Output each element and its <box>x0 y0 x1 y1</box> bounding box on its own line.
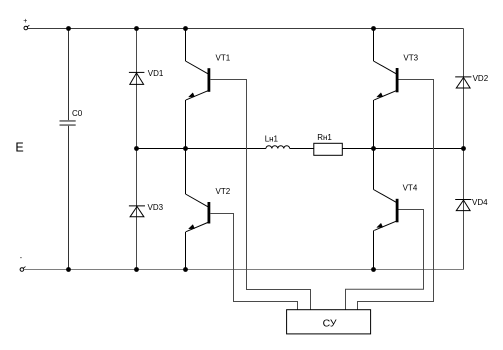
svg-text:+: + <box>23 18 27 25</box>
svg-text:E: E <box>15 141 23 155</box>
transistor VT2 <box>186 149 231 270</box>
wire VT1 base to control <box>210 80 310 310</box>
svg-text:VD4: VD4 <box>472 198 488 207</box>
diode VD4 <box>455 198 488 211</box>
terminal minus (bottom-left input terminal) <box>20 255 26 271</box>
svg-text:Rн1: Rн1 <box>317 133 332 142</box>
capacitor C0 <box>60 109 83 125</box>
node bottom capacitor junction <box>66 267 71 272</box>
node middle VT3-VT4 junction <box>371 146 376 151</box>
node middle VD1-VD3 junction <box>134 146 139 151</box>
svg-text:VD3: VD3 <box>148 203 164 212</box>
diode VD3 <box>129 203 164 217</box>
node bottom VT4 junction <box>371 267 376 272</box>
svg-text:VD2: VD2 <box>473 74 489 83</box>
control unit СУ <box>287 310 371 334</box>
transistor VT3 <box>374 29 419 149</box>
wire middle rail left (bridge midpoint to inductor) <box>137 148 266 150</box>
transistor VT4 <box>374 149 418 270</box>
svg-text:Lн1: Lн1 <box>265 135 279 144</box>
node top VD1 junction <box>134 26 139 31</box>
svg-text:VT4: VT4 <box>403 184 418 193</box>
svg-text:VT1: VT1 <box>216 53 231 62</box>
resistor Rн1 <box>314 133 343 155</box>
wire bottom rail <box>24 269 464 271</box>
node top VT1 junction <box>183 26 188 31</box>
svg-text:VT2: VT2 <box>216 187 231 196</box>
wire right rail (VD2/VD4 branch) <box>463 29 465 270</box>
wire capacitor branch upper <box>68 29 70 121</box>
svg-text:VD1: VD1 <box>148 69 164 78</box>
node middle VD2-VD4 junction <box>461 146 466 151</box>
svg-text:VT3: VT3 <box>403 53 418 62</box>
wire VT2 base to control <box>210 214 297 310</box>
wire top rail <box>28 28 464 30</box>
svg-text:C0: C0 <box>72 109 83 118</box>
node top VT3 junction <box>371 26 376 31</box>
inductor Lн1 <box>265 135 290 149</box>
wire VT4 base to control <box>346 210 424 310</box>
node bottom VD3 junction <box>134 267 139 272</box>
node middle VT1-VT2 junction <box>183 146 188 151</box>
diode VD1 <box>129 69 164 84</box>
svg-text:СУ: СУ <box>323 318 337 330</box>
wire capacitor branch lower <box>68 126 70 270</box>
wire VT3 base to control <box>358 80 434 310</box>
terminal plus (top-left input terminal) <box>23 18 29 30</box>
diode VD2 <box>455 74 489 88</box>
node bottom VT2 junction <box>183 267 188 272</box>
node top capacitor junction <box>66 26 71 31</box>
wire between inductor and resistor <box>290 148 314 150</box>
wire diode branch (VD1/VD3) <box>136 29 138 270</box>
wire middle rail right (resistor to right bridge) <box>342 148 463 150</box>
transistor VT1 <box>186 29 231 149</box>
